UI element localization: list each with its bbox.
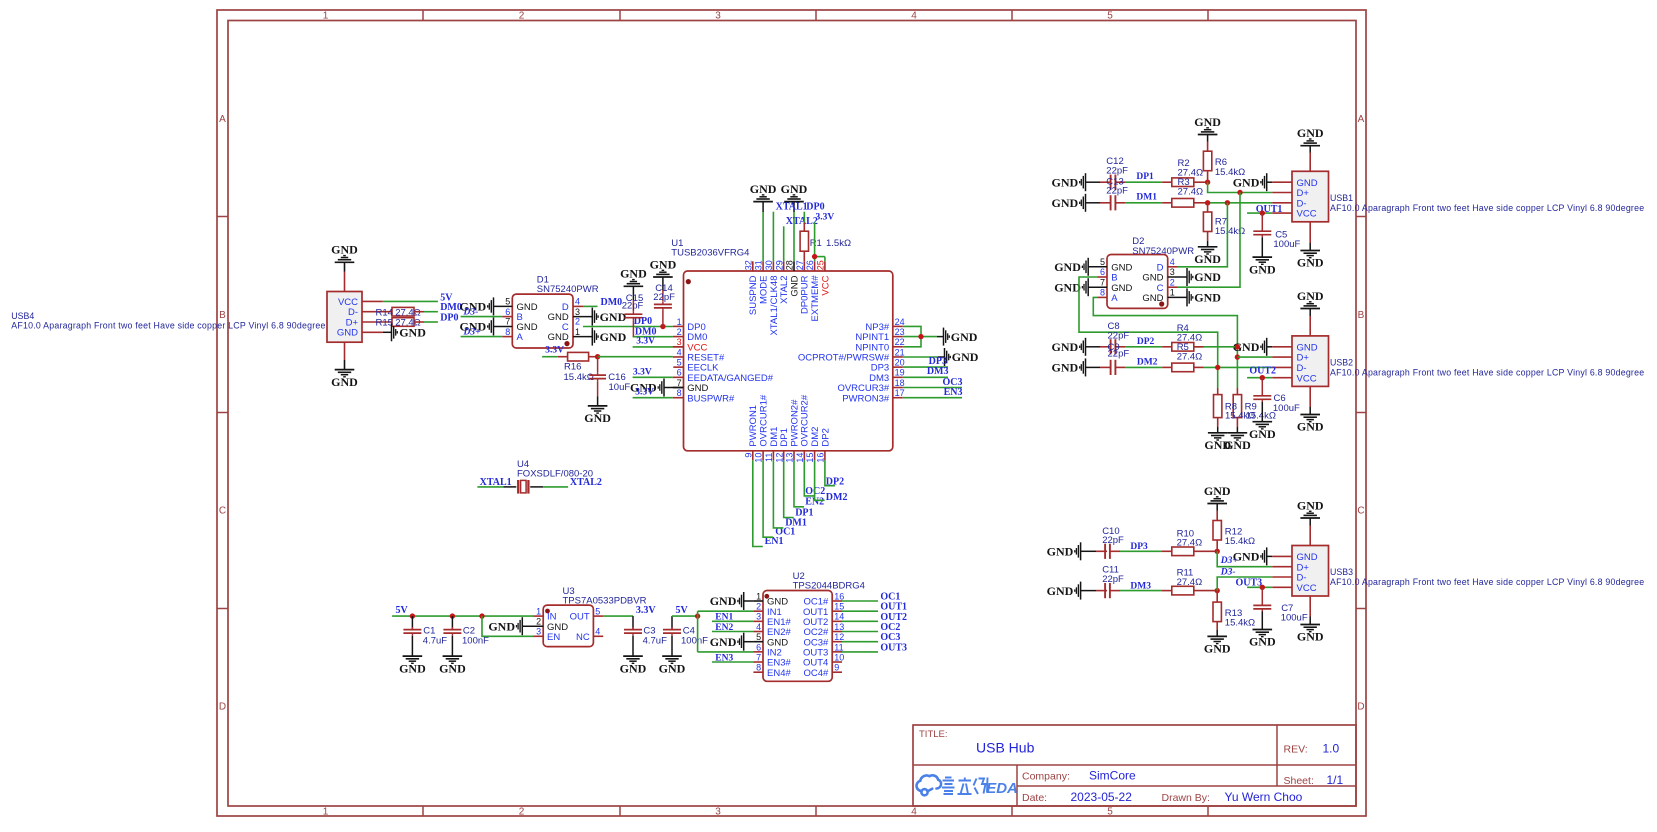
svg-text:USB3: USB3 [1330, 567, 1353, 577]
resistor R10 [1172, 547, 1194, 556]
svg-text:D3+: D3+ [1220, 556, 1238, 566]
ground flag DP1 row [1085, 173, 1087, 191]
svg-text:GND: GND [439, 661, 466, 675]
svg-text:11: 11 [834, 642, 843, 652]
U1 top pin stubs [752, 261, 754, 271]
svg-text:EN: EN [547, 632, 560, 643]
svg-text:8: 8 [677, 388, 682, 398]
svg-text:GND: GND [1194, 252, 1221, 266]
ground below R7 [1198, 246, 1218, 248]
svg-text:PWRON3#: PWRON3# [842, 393, 890, 404]
wire C11 to R11 [1110, 590, 1120, 592]
svg-text:VCC: VCC [820, 275, 831, 295]
svg-text:4: 4 [595, 627, 600, 637]
svg-text:GND: GND [1204, 438, 1231, 452]
svg-text:OUT2: OUT2 [1249, 366, 1276, 377]
svg-text:3: 3 [715, 11, 721, 22]
svg-text:2: 2 [536, 617, 541, 627]
svg-text:1: 1 [323, 11, 329, 22]
junction at pin26 3.3V [812, 254, 817, 259]
junction D2 pinC tap [1237, 190, 1242, 195]
EasyEDA logo cloud [917, 775, 942, 795]
svg-text:Drawn By:: Drawn By: [1162, 792, 1210, 804]
wire U2 OC1 [842, 600, 878, 602]
svg-text:SN75240PWR: SN75240PWR [1132, 246, 1194, 257]
svg-text:1: 1 [1170, 288, 1175, 298]
svg-text:OUT3: OUT3 [880, 642, 907, 653]
svg-text:27.4Ω: 27.4Ω [1178, 187, 1204, 198]
ground below C1 [403, 655, 423, 657]
svg-text:2: 2 [519, 807, 525, 818]
svg-text:GND: GND [548, 332, 569, 343]
svg-text:3.3V: 3.3V [635, 388, 654, 398]
ground below C2 [443, 655, 463, 657]
ground below R13 [1207, 635, 1227, 637]
capacitor C11 [1104, 583, 1106, 598]
svg-text:GND: GND [1052, 340, 1079, 354]
svg-text:24: 24 [895, 317, 905, 327]
svg-text:3.3V: 3.3V [633, 367, 652, 377]
svg-text:4.7uF: 4.7uF [643, 635, 667, 646]
wire XTAL1 to crystal [477, 486, 503, 488]
capacitor C6 [1261, 378, 1263, 396]
junction DM2 / D2.B / R8 [1215, 365, 1220, 370]
svg-text:GND: GND [1297, 630, 1324, 644]
svg-text:DP1: DP1 [1136, 172, 1154, 182]
wire DP3 jog to USB3 D+ [1217, 551, 1272, 566]
svg-text:GND: GND [710, 635, 737, 649]
svg-text:16: 16 [816, 453, 826, 463]
svg-text:GND: GND [952, 350, 979, 364]
wire C13 to R3 [1115, 202, 1125, 204]
svg-text:EN1: EN1 [715, 613, 733, 623]
wire R15 to DP0 [414, 321, 424, 323]
svg-text:4: 4 [756, 622, 761, 632]
svg-text:22pF: 22pF [1102, 535, 1124, 546]
junction C6 tap [1260, 375, 1265, 380]
resistor R6 [1207, 171, 1209, 183]
U1 right pin stubs [893, 325, 903, 327]
svg-text:17: 17 [895, 388, 905, 398]
connector USB2 [1292, 336, 1329, 387]
wire R5 to USB2 D- [1194, 366, 1204, 368]
wire 5V to U2 inputs [672, 615, 698, 617]
svg-text:12: 12 [834, 632, 844, 642]
svg-text:2: 2 [756, 602, 761, 612]
svg-text:15.4kΩ: 15.4kΩ [1215, 167, 1245, 178]
connector USB3 [1292, 546, 1329, 597]
svg-text:GND: GND [1249, 427, 1276, 441]
svg-text:XTAL2: XTAL2 [786, 216, 818, 227]
frame row dividers right [1356, 216, 1366, 218]
regulator U3 [543, 605, 593, 647]
svg-text:13: 13 [785, 453, 795, 463]
svg-text:6: 6 [505, 307, 510, 317]
svg-text:GND: GND [620, 267, 647, 281]
svg-text:Company:: Company: [1022, 771, 1070, 783]
svg-text:R16: R16 [564, 361, 581, 372]
resistor R16 [568, 352, 589, 361]
svg-text:8: 8 [756, 663, 761, 673]
junction DM3/R13 [1215, 588, 1220, 593]
svg-text:28: 28 [785, 260, 795, 270]
svg-text:GND: GND [584, 411, 611, 425]
wire flag to C8 [1086, 346, 1101, 348]
svg-text:EN3: EN3 [944, 387, 963, 398]
capacitor C12 [1110, 175, 1112, 190]
wire R11 to junction [1194, 590, 1217, 592]
resistor R9 below [1233, 395, 1241, 418]
svg-text:GND: GND [620, 661, 647, 675]
svg-text:GND: GND [650, 257, 677, 271]
svg-text:GND: GND [1204, 642, 1231, 656]
svg-text:USB2: USB2 [1330, 358, 1353, 368]
wire R16 to junction [589, 356, 598, 358]
wire U1 pin22 NPINT0 [903, 337, 921, 347]
ground at U1 pin23 [943, 328, 945, 346]
svg-text:11: 11 [764, 453, 774, 462]
svg-text:GND: GND [1194, 115, 1221, 129]
wire R2 to junction [1194, 181, 1208, 183]
svg-text:AF10.0 Aparagraph Front two fe: AF10.0 Aparagraph Front two feet Have si… [1330, 367, 1644, 377]
svg-text:3: 3 [1170, 267, 1175, 277]
wire U1 pin17 PWRON3# [903, 397, 962, 399]
svg-text:15.4kΩ: 15.4kΩ [1225, 411, 1255, 422]
EasyEDA logo text [942, 778, 1018, 798]
svg-text:GND: GND [1249, 262, 1276, 276]
svg-text:NC: NC [576, 632, 590, 643]
svg-text:22: 22 [895, 337, 905, 347]
svg-text:27.4Ω: 27.4Ω [1177, 538, 1203, 549]
USB3 GND pin flag [1267, 555, 1273, 557]
svg-text:2023-05-22: 2023-05-22 [1071, 790, 1133, 804]
wire U2 OC3 [842, 641, 878, 643]
U1 bottom pin stubs [752, 451, 754, 461]
capacitor C13 [1110, 195, 1112, 210]
svg-text:22pF: 22pF [1108, 331, 1130, 342]
svg-text:DM2: DM2 [826, 492, 848, 503]
capacitor C10 [1104, 544, 1106, 559]
resistor R15 [392, 318, 414, 327]
ground at U1 pin21 [944, 348, 946, 366]
wire D2 pin8 A down to USB2 DP2 [1097, 296, 1107, 298]
resistor R3 [1172, 199, 1194, 208]
wire USB1 VCC / OUT1 [1247, 212, 1272, 214]
svg-text:7: 7 [1100, 277, 1105, 287]
USB3 bottom ground [1309, 596, 1311, 617]
ground above U1 pin31 [753, 201, 773, 203]
svg-text:GND: GND [1249, 635, 1276, 649]
svg-text:4: 4 [911, 807, 917, 818]
U1 left pin stubs [673, 325, 684, 327]
svg-text:DM3: DM3 [927, 366, 949, 377]
USB1 top ground [1309, 153, 1311, 172]
resistor R13 [1216, 591, 1218, 603]
wire DM3 jog to USB3 D- [1217, 577, 1272, 591]
svg-text:AF10.0 Aparagraph Front two fe: AF10.0 Aparagraph Front two feet Have si… [1330, 203, 1644, 213]
wire U2 OUT3 [842, 651, 878, 653]
svg-text:DP2: DP2 [820, 428, 831, 446]
svg-text:GND: GND [600, 310, 627, 324]
sheet frame inner border [228, 21, 1356, 807]
svg-text:9: 9 [834, 663, 839, 673]
svg-text:1.0: 1.0 [1323, 742, 1340, 756]
wire U1 pin9 to EN1 [753, 460, 763, 546]
svg-text:SN75240PWR: SN75240PWR [537, 284, 599, 295]
D1 origin dot [564, 341, 569, 346]
svg-text:20: 20 [895, 358, 905, 368]
junction DP2 / D2.A [1235, 344, 1240, 349]
svg-text:1: 1 [323, 807, 329, 818]
svg-text:OC4#: OC4# [803, 668, 829, 679]
svg-text:AF10.0 Aparagraph Front two fe: AF10.0 Aparagraph Front two feet Have si… [1330, 577, 1644, 587]
svg-text:5V: 5V [676, 605, 689, 616]
wire USB3 VCC / OUT3 [1247, 586, 1272, 588]
wire DM0 into U1 pin2 [633, 336, 673, 338]
title block divider under TITLE row [913, 764, 1356, 766]
svg-text:3: 3 [536, 627, 541, 637]
svg-text:DM3: DM3 [1130, 581, 1151, 591]
wire U1 pin12 to DP1 [784, 460, 794, 517]
ground flag DM1 row [1085, 194, 1087, 212]
svg-text:GND: GND [1297, 420, 1324, 434]
wire U1 pin20 DP3 [903, 366, 948, 368]
wire U1 pin28 GND to ground [793, 212, 795, 261]
svg-text:26: 26 [805, 260, 815, 270]
svg-text:100uF: 100uF [1273, 403, 1300, 414]
svg-text:6: 6 [1100, 267, 1105, 277]
capacitor C15 [632, 286, 634, 300]
svg-text:100nF: 100nF [681, 635, 708, 646]
frame column dividers top [422, 10, 424, 21]
svg-text:GND: GND [1297, 498, 1324, 512]
ground below USB4 [335, 369, 355, 371]
U1 pin7 ground flag [664, 387, 684, 389]
svg-text:22pF: 22pF [622, 301, 644, 312]
ground below C16 [588, 405, 608, 407]
svg-text:GND: GND [1194, 291, 1221, 305]
svg-text:D: D [219, 702, 226, 713]
wire U1 pin19 DM3 [903, 376, 948, 378]
wire R3 to USB1 D- [1194, 202, 1208, 204]
svg-text:29: 29 [774, 260, 784, 270]
svg-text:3.3V: 3.3V [816, 212, 835, 222]
wire USB2 VCC / OUT2 [1247, 377, 1272, 379]
svg-text:1: 1 [756, 591, 761, 601]
svg-text:OUT: OUT [570, 612, 590, 623]
svg-text:4: 4 [575, 297, 580, 307]
svg-text:GND: GND [1052, 196, 1079, 210]
wire U1 pin13 to EN2 [794, 460, 804, 507]
D1 pin 6 wire to D3- [502, 316, 512, 318]
svg-text:EN4#: EN4# [767, 668, 791, 679]
junction D2 pinD tap [1225, 200, 1230, 205]
junction pins 24/23/22 [918, 334, 923, 339]
U2 right pin stubs [832, 600, 842, 602]
svg-text:TITLE:: TITLE: [919, 729, 948, 740]
U2 left pin stubs [753, 600, 763, 602]
svg-text:18: 18 [895, 378, 905, 388]
wire junction to U1 pin4 RESET# [598, 356, 673, 358]
title block divider under Company row [1017, 785, 1356, 787]
svg-text:DP3: DP3 [1130, 542, 1148, 552]
svg-text:USB Hub: USB Hub [976, 740, 1035, 756]
svg-text:15.4kΩ: 15.4kΩ [1225, 536, 1255, 547]
connector USB4 [327, 292, 362, 343]
svg-text:USB4: USB4 [11, 311, 34, 321]
svg-text:15.4kΩ: 15.4kΩ [1225, 617, 1255, 628]
svg-text:4: 4 [911, 11, 917, 22]
svg-text:GND: GND [1047, 545, 1074, 559]
USB2 top ground [1309, 316, 1311, 336]
svg-text:TUSB2036VFRG4: TUSB2036VFRG4 [671, 248, 749, 259]
wire U1 pin10 to OC1 [763, 460, 773, 537]
wire R14 to DM0 [414, 311, 424, 313]
svg-text:GND: GND [1194, 270, 1221, 284]
svg-text:3: 3 [715, 807, 721, 818]
svg-text:5: 5 [1107, 11, 1113, 22]
svg-text:10: 10 [834, 652, 844, 662]
wire U1 pin15 to DM2 [815, 460, 825, 500]
svg-text:A: A [219, 114, 226, 125]
protection diode D1 [512, 294, 573, 348]
U2 pin1 ground flag [744, 600, 754, 602]
svg-text:10: 10 [754, 453, 764, 463]
svg-text:GND: GND [1297, 256, 1324, 270]
svg-text:3.3V: 3.3V [545, 346, 564, 356]
svg-text:2: 2 [575, 317, 580, 327]
svg-text:GND: GND [1142, 293, 1163, 304]
svg-text:Sheet:: Sheet: [1284, 775, 1314, 787]
svg-text:3.3V: 3.3V [636, 605, 657, 616]
D2 pin1 ground [1168, 296, 1187, 298]
connector USB1 [1292, 171, 1329, 222]
D1 pin 8 wire to D3+ [502, 336, 512, 338]
wire U1 pin14 to OC2 [804, 460, 814, 496]
wire USB4 D+ to R15 [362, 321, 392, 323]
ground below R8 [1208, 432, 1228, 434]
wire U1 pin24 NP3# [903, 326, 921, 336]
D1 pin 3 stub and ground [573, 316, 592, 318]
junction C2 tap [450, 613, 455, 618]
U3 NC stub [593, 635, 603, 637]
svg-text:A: A [517, 332, 524, 343]
wire flag to C9 [1086, 366, 1101, 368]
svg-text:FOXSDLF/080-20: FOXSDLF/080-20 [517, 469, 593, 480]
ground above R12 [1207, 503, 1227, 505]
junction DP3/R12 [1215, 549, 1220, 554]
ground flag DM3 row [1080, 582, 1082, 600]
svg-text:3: 3 [756, 612, 761, 622]
svg-text:7: 7 [677, 378, 682, 388]
svg-text:DP0: DP0 [806, 201, 824, 212]
svg-text:5: 5 [677, 358, 682, 368]
power switch U2 [763, 591, 832, 682]
svg-text:4: 4 [677, 347, 682, 357]
resistor R14 [392, 307, 414, 316]
svg-text:23: 23 [895, 327, 905, 337]
wire U1 pin30 to XTAL1 [772, 212, 774, 262]
resistor R8 below [1217, 388, 1219, 395]
protection diode D2 [1107, 255, 1168, 309]
ground below C6 [1253, 421, 1273, 423]
svg-text:GND: GND [399, 326, 426, 340]
svg-text:D3+: D3+ [463, 328, 481, 338]
ground above USB4 [335, 261, 355, 263]
svg-text:27.4Ω: 27.4Ω [1177, 577, 1203, 588]
svg-text:2: 2 [1170, 277, 1175, 287]
svg-text:12: 12 [774, 453, 784, 463]
svg-text:DM1: DM1 [1136, 193, 1157, 203]
wire D2 pin2 C to D+ net [1168, 286, 1178, 288]
svg-text:GND: GND [600, 330, 627, 344]
wire flag to C10 [1081, 550, 1096, 552]
svg-text:13: 13 [834, 622, 844, 632]
ground below C4 [662, 655, 682, 657]
ground flag DM2 row [1085, 358, 1087, 376]
junction C7 tap [1260, 585, 1265, 590]
capacitor C9 [1110, 360, 1112, 375]
svg-text:22pF: 22pF [1106, 166, 1128, 177]
svg-text:DP1: DP1 [795, 507, 813, 518]
wire U2 EN2# [712, 631, 753, 633]
svg-text:4: 4 [1170, 257, 1175, 267]
resistor R7 [1207, 203, 1209, 212]
wire D2 pin4 D to DM1 net [1168, 266, 1178, 268]
wire U1 pin31 MODE to ground [762, 212, 764, 261]
title block vertical divider logo cell [1016, 765, 1018, 806]
svg-text:21: 21 [895, 347, 905, 357]
USB1 bottom ground [1309, 222, 1311, 243]
svg-text:GND: GND [1052, 175, 1079, 189]
resistor R12 [1216, 540, 1218, 551]
svg-text:8: 8 [1100, 288, 1105, 298]
wire U1 pin18 OVRCUR3# [903, 387, 962, 389]
svg-text:B: B [219, 310, 226, 321]
svg-text:3: 3 [677, 337, 682, 347]
wire flag to C11 [1081, 590, 1096, 592]
svg-text:31: 31 [754, 260, 764, 270]
svg-text:9: 9 [743, 453, 753, 458]
svg-text:3.3V: 3.3V [636, 336, 655, 346]
resistor R5 [1172, 363, 1194, 372]
svg-text:C: C [219, 506, 226, 517]
svg-text:GND: GND [1052, 361, 1079, 375]
capacitor C5 [1261, 213, 1263, 231]
svg-text:7: 7 [505, 317, 510, 327]
junction 5V/IN1/IN2 [695, 613, 700, 618]
svg-text:B: B [1358, 310, 1365, 321]
svg-text:15: 15 [805, 453, 815, 463]
svg-text:15: 15 [834, 602, 844, 612]
wire 3.3V to R16 [542, 356, 558, 358]
svg-text:5: 5 [505, 297, 510, 307]
svg-text:GND: GND [337, 328, 358, 339]
D2 pin5 ground [1088, 266, 1107, 268]
U3 origin dot [545, 609, 550, 614]
wire DP1 jog to USB1 D+ [1208, 182, 1273, 192]
svg-text:D: D [1357, 702, 1364, 713]
capacitor C2 [451, 616, 453, 629]
svg-text:C: C [1357, 506, 1364, 517]
capacitor C14 [662, 277, 664, 290]
capacitor C8 [1110, 339, 1112, 354]
wire U2 EN1# [712, 620, 753, 622]
svg-text:5: 5 [756, 632, 761, 642]
svg-text:3: 3 [575, 307, 580, 317]
resistor R2 [1172, 178, 1194, 187]
svg-text:1: 1 [575, 327, 580, 337]
